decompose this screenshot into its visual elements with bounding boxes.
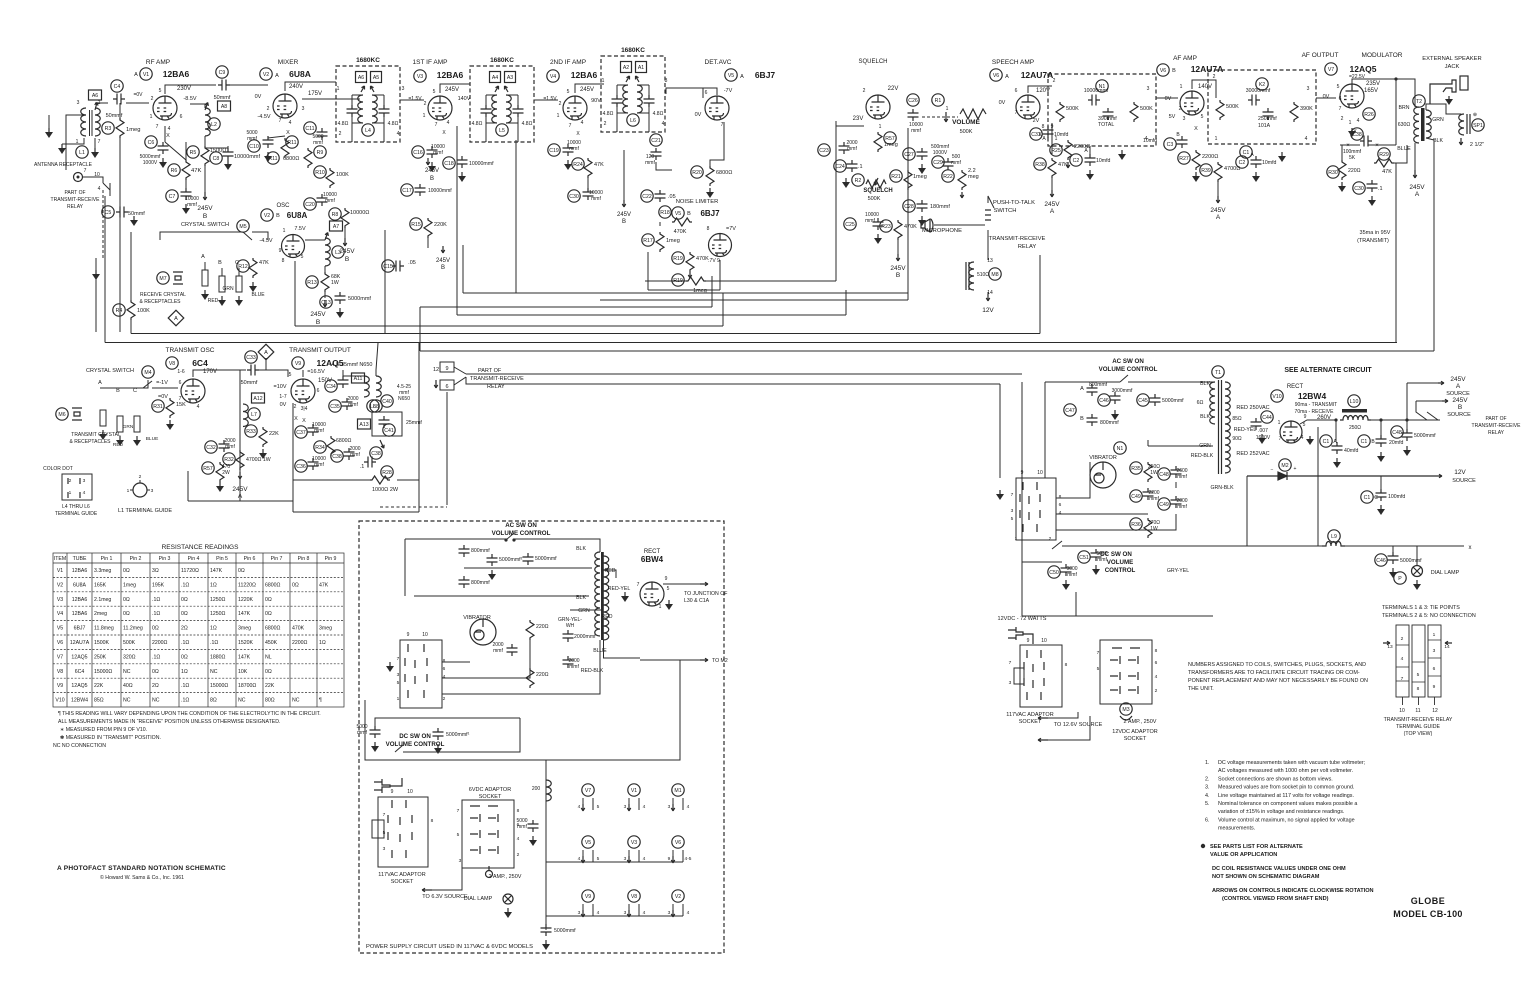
capacitor C48b 5000mmf xyxy=(1402,429,1413,441)
heater pins M1h xyxy=(672,798,674,810)
svg-text:180mmf: 180mmf xyxy=(930,204,950,210)
svg-text:M1: M1 xyxy=(674,788,681,794)
svg-text:3: 3 xyxy=(624,910,627,916)
svg-text:6: 6 xyxy=(179,380,182,386)
res callout R57tx xyxy=(202,462,214,474)
transmit-receive relay terminal guide columns xyxy=(1396,625,1441,705)
cap callout C46b alt xyxy=(1375,554,1387,566)
svg-text:R20: R20 xyxy=(692,170,702,176)
capacitor C38 100mmf xyxy=(1360,136,1372,147)
svg-text:7: 7 xyxy=(279,118,282,124)
tube callout V3 xyxy=(414,70,426,82)
svg-text:245V: 245V xyxy=(1450,376,1466,383)
ground C46b alt xyxy=(1389,568,1397,578)
heater row2 bus xyxy=(546,861,683,863)
svg-text:A12: A12 xyxy=(253,396,262,402)
IF transformer T-A (1680KC input) sec bottom lead xyxy=(383,95,385,109)
wire R30 top xyxy=(1341,145,1343,160)
ptt switch symbol xyxy=(988,196,994,208)
wire C46b drop xyxy=(1392,546,1394,552)
svg-text:3: 3 xyxy=(1011,508,1014,514)
svg-text:1: 1 xyxy=(659,604,662,610)
svg-text:C1: C1 xyxy=(1323,439,1330,445)
IF transformer T-B (1680KC interstage) primary winding xyxy=(492,95,497,123)
svg-text:1W: 1W xyxy=(1150,470,1158,476)
svg-text:7: 7 xyxy=(98,139,101,145)
cap callout C9 xyxy=(216,66,228,78)
svg-text:2: 2 xyxy=(1341,116,1344,122)
svg-text:90V: 90V xyxy=(591,98,601,104)
cap callout C1B alt xyxy=(1358,435,1370,447)
ground C13 xyxy=(336,308,344,318)
svg-text:7: 7 xyxy=(1015,110,1018,116)
svg-text:9: 9 xyxy=(391,789,394,795)
svg-text:NC: NC xyxy=(238,698,246,704)
res callout R38 xyxy=(1034,158,1046,170)
IF transformer T-A (1680KC input) primary winding xyxy=(358,95,363,123)
cap callout C35 xyxy=(329,400,341,412)
svg-text:4: 4 xyxy=(643,856,646,862)
ps heater rail top xyxy=(546,759,680,761)
svg-text:9: 9 xyxy=(668,856,671,862)
svg-text:4: 4 xyxy=(98,186,101,192)
svg-text:23V: 23V xyxy=(853,116,864,122)
svg-text:11.8meg: 11.8meg xyxy=(94,626,114,632)
wire plate node to L2 xyxy=(190,104,205,108)
wire switch to osc grid xyxy=(252,232,268,240)
svg-text:5: 5 xyxy=(567,89,570,95)
svg-text:TO M2: TO M2 xyxy=(712,658,728,664)
IF transformer T-C (1680KC output) pri arrow xyxy=(626,76,630,82)
capacitor C9 50mmf xyxy=(218,80,230,91)
heater pins V9h xyxy=(582,904,584,916)
svg-text:245V: 245V xyxy=(425,168,439,174)
ground R57tx xyxy=(216,482,224,492)
svg-text:2: 2 xyxy=(443,696,446,702)
IF transformer T-A (1680KC input) sec top lead xyxy=(372,94,384,96)
ground C5 xyxy=(130,216,138,226)
12VDC adaptor socket box2 xyxy=(1100,640,1152,704)
trimmer box C41 xyxy=(372,412,402,436)
volume pot R1 body xyxy=(960,109,986,119)
wire mixer plate to IF1 xyxy=(285,82,336,91)
svg-text:3|4: 3|4 xyxy=(301,406,308,412)
arrow to 12.6a xyxy=(1038,716,1048,720)
ps heater rail v xyxy=(545,760,547,930)
svg-text:117VAC ADAPTOR: 117VAC ADAPTOR xyxy=(1006,712,1053,718)
svg-text:2 AMP., 250V: 2 AMP., 250V xyxy=(1124,719,1157,725)
svg-text:=1.5V: =1.5V xyxy=(408,96,422,102)
arrow trimmer xyxy=(380,440,384,448)
resistor R36 270 ohm alt xyxy=(1144,518,1152,538)
svg-text:6800Ω: 6800Ω xyxy=(283,156,299,162)
svg-text:1220K: 1220K xyxy=(238,597,254,603)
res callout R10 xyxy=(314,166,326,178)
res callout R5 xyxy=(187,146,199,158)
12VDC adaptor socket box xyxy=(1020,645,1062,707)
svg-text:TO 6.3V SOURCE: TO 6.3V SOURCE xyxy=(422,894,468,900)
tag A11 xyxy=(352,373,365,383)
coil callout L10 xyxy=(1348,395,1360,407)
svg-text:1meg: 1meg xyxy=(126,127,141,133)
svg-text:R11: R11 xyxy=(287,140,296,146)
svg-text:B: B xyxy=(218,260,222,266)
tube V5B 6BJ7 noise limiter xyxy=(709,234,732,257)
svg-text:7: 7 xyxy=(383,812,386,818)
resistor R21 1meg xyxy=(904,170,912,190)
heater row3 bus xyxy=(546,915,683,917)
svg-text:6: 6 xyxy=(317,388,320,394)
svg-text:500K: 500K xyxy=(868,196,881,202)
arrow 12V source xyxy=(1436,474,1442,478)
wire V3 plate xyxy=(440,84,470,93)
wire V1 cathode xyxy=(164,126,166,142)
capacitor ps 2000mmf a xyxy=(507,644,518,656)
capacitor C26 10000mmf xyxy=(908,109,919,121)
wire antenna relay drop xyxy=(102,190,104,258)
svg-text:40Ω: 40Ω xyxy=(123,683,133,689)
svg-text:C48: C48 xyxy=(1392,430,1402,436)
svg-text:C2: C2 xyxy=(1239,160,1246,166)
capacitor C11 5000mmf xyxy=(317,128,328,140)
wire col x1247 xyxy=(1246,476,1248,546)
wire R13 bottom xyxy=(324,292,326,298)
svg-text:RELAY: RELAY xyxy=(67,204,84,210)
ps dc rail2 xyxy=(403,718,520,752)
svg-text:B: B xyxy=(116,388,120,394)
wire 245VB out xyxy=(1416,400,1442,402)
ground psdc xyxy=(371,742,379,752)
svg-text:A3: A3 xyxy=(507,75,513,81)
tag A12 xyxy=(252,393,265,403)
interstage network K1 box xyxy=(1048,74,1156,146)
wire L1 pin1 to gnd xyxy=(62,138,84,144)
ground txtal A xyxy=(99,430,107,440)
wire T2 sec top xyxy=(1426,104,1430,110)
svg-text:1: 1 xyxy=(423,113,426,119)
ground alt socket xyxy=(996,490,1004,500)
svg-text:L7: L7 xyxy=(251,412,257,418)
svg-text:1Ω: 1Ω xyxy=(210,582,217,588)
svg-text:TERMINAL GUIDE: TERMINAL GUIDE xyxy=(55,511,98,517)
wire IF2 to V4 grid xyxy=(534,99,558,101)
alt inner rail d xyxy=(1056,514,1176,530)
wire tank bus2 xyxy=(343,370,364,376)
ground R27 xyxy=(1192,172,1200,182)
svg-text:BLUE: BLUE xyxy=(251,292,265,298)
IF transformer T-C (1680KC output) pin2 lead xyxy=(616,113,618,132)
svg-text:5000mmf: 5000mmf xyxy=(554,928,576,934)
ground C7 xyxy=(182,204,190,214)
wire NL cath drop xyxy=(719,281,721,290)
resistor K2 500K xyxy=(1216,100,1224,120)
svg-text:3: 3 xyxy=(1307,86,1310,92)
ps filter choke xyxy=(546,780,551,801)
svg-text:1680KC: 1680KC xyxy=(356,57,380,64)
res callout R3 xyxy=(102,122,114,134)
svg-text:C11: C11 xyxy=(305,126,314,132)
svg-text:A: A xyxy=(740,74,744,80)
svg-text:1000Ω 2W: 1000Ω 2W xyxy=(372,487,399,493)
svg-text:6: 6 xyxy=(1059,502,1062,508)
IF transformer T-C (1680KC output) primary winding xyxy=(623,85,628,113)
svg-text:DIAL LAMP: DIAL LAMP xyxy=(464,896,493,902)
heater pins V2h xyxy=(672,904,674,916)
arrow rect out xyxy=(700,582,708,586)
crystal sw A contact xyxy=(202,270,208,286)
svg-text:4.5-35mmf N650: 4.5-35mmf N650 xyxy=(332,362,373,368)
svg-text:.1: .1 xyxy=(858,164,863,170)
svg-text:⊕: ⊕ xyxy=(1473,112,1477,118)
svg-text:A: A xyxy=(1050,208,1055,215)
IF transformer T-A (1680KC input) pri lower xyxy=(352,113,363,123)
svg-text:B: B xyxy=(1458,404,1462,411)
ground C2A xyxy=(1086,170,1094,180)
cap callout C49b alt xyxy=(1158,498,1170,510)
wire relay contact lead xyxy=(109,183,111,196)
ground rect alt xyxy=(1306,436,1314,445)
svg-text:3: 3 xyxy=(459,858,462,864)
svg-text:1: 1 xyxy=(337,86,340,92)
pot callout R1 xyxy=(932,94,944,106)
svg-text:POWER SUPPLY CIRCUIT USED IN 1: POWER SUPPLY CIRCUIT USED IN 117VAC & 6V… xyxy=(366,944,533,950)
svg-text:B: B xyxy=(430,176,434,182)
svg-text:M6: M6 xyxy=(58,412,65,418)
cap callout C21 xyxy=(650,134,662,146)
resistor R31 15K xyxy=(166,398,174,418)
tube V6A 12AU7A speech amp xyxy=(1016,95,1040,119)
svg-text:8: 8 xyxy=(1042,124,1045,130)
svg-text:1.: 1. xyxy=(1205,760,1210,766)
svg-text:1Ω: 1Ω xyxy=(210,626,217,632)
svg-text:1: 1 xyxy=(1433,632,1436,638)
wire ps to M2 xyxy=(640,659,700,661)
svg-text:© Howard W. Sams & Co., Inc. 1: © Howard W. Sams & Co., Inc. 1961 xyxy=(100,874,184,881)
wire antenna bus down xyxy=(95,258,97,332)
svg-text:L5: L5 xyxy=(499,128,505,134)
wire R3 bottom rail xyxy=(119,138,121,208)
svg-text:6U8A: 6U8A xyxy=(287,211,308,220)
svg-text:3: 3 xyxy=(383,846,386,852)
alt rail g xyxy=(1175,482,1177,488)
svg-text:JACK: JACK xyxy=(1445,64,1460,70)
IF transformer T-B (1680KC interstage) pin2 lead xyxy=(485,123,487,142)
heater pins V3h xyxy=(628,850,630,862)
svg-text:C18: C18 xyxy=(444,161,454,167)
svg-text:12BW4: 12BW4 xyxy=(71,698,88,704)
heater arrow V3h xyxy=(627,856,631,863)
wire speech plate xyxy=(1028,86,1052,93)
svg-text:630Ω: 630Ω xyxy=(1398,122,1411,128)
svg-text:PART OF: PART OF xyxy=(1485,416,1506,422)
svg-text:8: 8 xyxy=(282,258,285,264)
ps sw dot a xyxy=(504,538,507,541)
capacitor C1A 40mfd xyxy=(1332,442,1343,454)
svg-text:mmf: mmf xyxy=(314,428,324,434)
svg-text:R30: R30 xyxy=(1328,170,1338,176)
arrow R19 down xyxy=(688,272,692,278)
capacitor C2B 10mfd xyxy=(1251,156,1262,168)
svg-text:2 AMP., 250V: 2 AMP., 250V xyxy=(489,874,522,880)
arrow tx 245V xyxy=(238,472,242,479)
resistor R19 1meg xyxy=(686,277,706,285)
capacitor ps dc 5000mmf a xyxy=(370,726,381,738)
resistor R9 100K xyxy=(304,148,312,168)
heater socket V7h xyxy=(582,784,594,796)
relay guide arrow l xyxy=(1383,641,1390,645)
svg-text:12V: 12V xyxy=(982,307,994,314)
svg-text:V7: V7 xyxy=(585,788,591,794)
svg-text:B: B xyxy=(622,219,626,225)
wire ptt to relay coil xyxy=(987,230,989,260)
svg-text:7: 7 xyxy=(435,122,438,128)
wire K1 out to AF grid xyxy=(1156,97,1178,99)
cap callout C2a xyxy=(1070,154,1082,166)
ps top rail2 xyxy=(514,539,600,552)
svg-text:3: 3 xyxy=(624,804,627,810)
svg-text:R24: R24 xyxy=(573,162,583,168)
svg-text:.1: .1 xyxy=(360,464,365,470)
svg-text:11220Ω: 11220Ω xyxy=(238,582,256,588)
svg-text:13: 13 xyxy=(1387,644,1393,650)
ps dc switch xyxy=(395,745,403,752)
resistance readings table text xyxy=(54,556,337,704)
guide stub right xyxy=(147,489,150,491)
IF transformer T-A (1680KC input) tag A5 xyxy=(371,72,382,83)
resistor R25 2200 ohm xyxy=(1064,140,1072,160)
svg-text:140V: 140V xyxy=(458,96,471,102)
diode M2 xyxy=(1247,472,1436,480)
svg-text:5: 5 xyxy=(1097,666,1100,672)
res callout R19b xyxy=(672,274,684,286)
svg-text:R29: R29 xyxy=(1379,152,1389,158)
arrow relay 12V xyxy=(986,294,990,301)
svg-text:2: 2 xyxy=(267,106,270,112)
cap callout C38b xyxy=(370,447,382,459)
svg-text:500K: 500K xyxy=(960,129,973,135)
svg-text:0Ω: 0Ω xyxy=(123,597,130,603)
svg-text:mmf: mmf xyxy=(1177,504,1187,510)
svg-text:3000mmf: 3000mmf xyxy=(1112,388,1133,394)
capacitor C28 180mmf xyxy=(917,200,928,212)
svg-text:.05: .05 xyxy=(408,260,416,266)
heater pins b V6h xyxy=(682,850,684,862)
svg-text:AC SW ON: AC SW ON xyxy=(1112,358,1144,365)
svg-text:mmf: mmf xyxy=(1097,557,1107,563)
svg-text:1: 1 xyxy=(946,106,949,112)
svg-text:11.2meg: 11.2meg xyxy=(123,626,143,632)
wire tx bottom rail xyxy=(188,500,293,502)
svg-text:1meg: 1meg xyxy=(123,582,136,588)
wire T2 bottom to 245V xyxy=(1414,143,1416,170)
svg-text:4: 4 xyxy=(578,804,581,810)
svg-text:195K: 195K xyxy=(152,582,165,588)
svg-text:A4: A4 xyxy=(492,75,498,81)
ground dial lamp ps xyxy=(504,908,512,918)
svg-text:2: 2 xyxy=(1213,74,1216,80)
svg-text:A: A xyxy=(1216,214,1221,221)
wire tx crystal bus xyxy=(100,380,148,388)
resistor ps 220 a xyxy=(526,620,534,640)
resistor R57 1meg squelch xyxy=(874,132,882,152)
svg-text:V3: V3 xyxy=(417,74,423,80)
arrow squelch pot xyxy=(874,178,878,185)
wire C8 junction xyxy=(205,146,228,148)
svg-text:47K: 47K xyxy=(1058,162,1068,168)
svg-text:RELAY: RELAY xyxy=(1018,244,1037,250)
svg-text:A2: A2 xyxy=(623,65,629,71)
heater pins b V7h xyxy=(592,798,594,810)
svg-text:VOLUME CONTROL: VOLUME CONTROL xyxy=(386,741,445,748)
wire speech to K1 xyxy=(1048,85,1052,87)
network callout K2 xyxy=(1256,78,1268,90)
capacitor C10 5000mmf xyxy=(263,136,274,148)
svg-text:0V: 0V xyxy=(695,112,702,118)
svg-text:6: 6 xyxy=(443,666,446,672)
vibrator socket pins alt xyxy=(1020,482,1040,532)
wire R39 down xyxy=(1217,182,1219,196)
svg-text:mmf: mmf xyxy=(225,444,235,450)
svg-text:470K: 470K xyxy=(292,626,305,632)
svg-text:VALUE OR APPLICATION: VALUE OR APPLICATION xyxy=(1210,852,1277,858)
svg-text:A: A xyxy=(174,316,178,322)
svg-text:8: 8 xyxy=(707,226,710,232)
svg-text:4: 4 xyxy=(83,490,86,496)
svg-text:250K: 250K xyxy=(94,654,107,660)
wire L9 left xyxy=(1247,545,1322,547)
alt dc switch xyxy=(1052,541,1062,549)
svg-text:TUBE: TUBE xyxy=(73,556,87,562)
heater socket V1h xyxy=(628,784,640,796)
IF transformer T-A (1680KC input) pri tuning cap xyxy=(347,105,358,117)
svg-text:8: 8 xyxy=(1059,494,1062,500)
capacitor C40 trimmer xyxy=(379,416,390,428)
ground lamp alt xyxy=(1413,580,1421,590)
svg-text:117VAC ADAPTOR: 117VAC ADAPTOR xyxy=(378,872,425,878)
svg-text:Pin 8: Pin 8 xyxy=(298,556,310,562)
svg-text:C2: C2 xyxy=(1073,158,1080,164)
svg-text:C33: C33 xyxy=(246,355,256,361)
coil callout L1 xyxy=(76,146,88,158)
svg-text:10: 10 xyxy=(422,632,428,638)
ground txtal B xyxy=(116,436,124,446)
svg-text:MICROPHONE: MICROPHONE xyxy=(922,228,962,234)
wire K2 to V7 grid xyxy=(1316,97,1336,99)
svg-text:mmf: mmf xyxy=(493,648,503,654)
svg-text:0Ω: 0Ω xyxy=(265,611,272,617)
svg-text:PUSH-TO-TALK: PUSH-TO-TALK xyxy=(993,200,1035,206)
svg-text:V5: V5 xyxy=(57,626,63,632)
svg-text:2: 2 xyxy=(517,852,520,858)
wire L9 right xyxy=(1345,545,1464,547)
svg-text:12AQ5: 12AQ5 xyxy=(71,654,87,660)
svg-text:.1Ω: .1Ω xyxy=(181,698,189,704)
res callout R22 xyxy=(942,170,954,182)
cap callout C29 xyxy=(932,156,944,168)
svg-text:0Ω: 0Ω xyxy=(123,568,130,574)
ground C30b xyxy=(1368,196,1376,206)
svg-text:R36: R36 xyxy=(1131,522,1141,528)
capacitor C5 50mmf xyxy=(116,207,128,218)
svg-text:R25: R25 xyxy=(1051,148,1061,154)
svg-text:2200Ω: 2200Ω xyxy=(152,640,168,646)
wire 6.3 arrow lead xyxy=(432,868,462,890)
svg-text:RECT: RECT xyxy=(1287,384,1304,390)
svg-text:mmf: mmf xyxy=(357,730,367,736)
svg-text:4: 4 xyxy=(643,910,646,916)
svg-text:R8: R8 xyxy=(332,212,339,218)
ground crystal B xyxy=(218,296,226,306)
